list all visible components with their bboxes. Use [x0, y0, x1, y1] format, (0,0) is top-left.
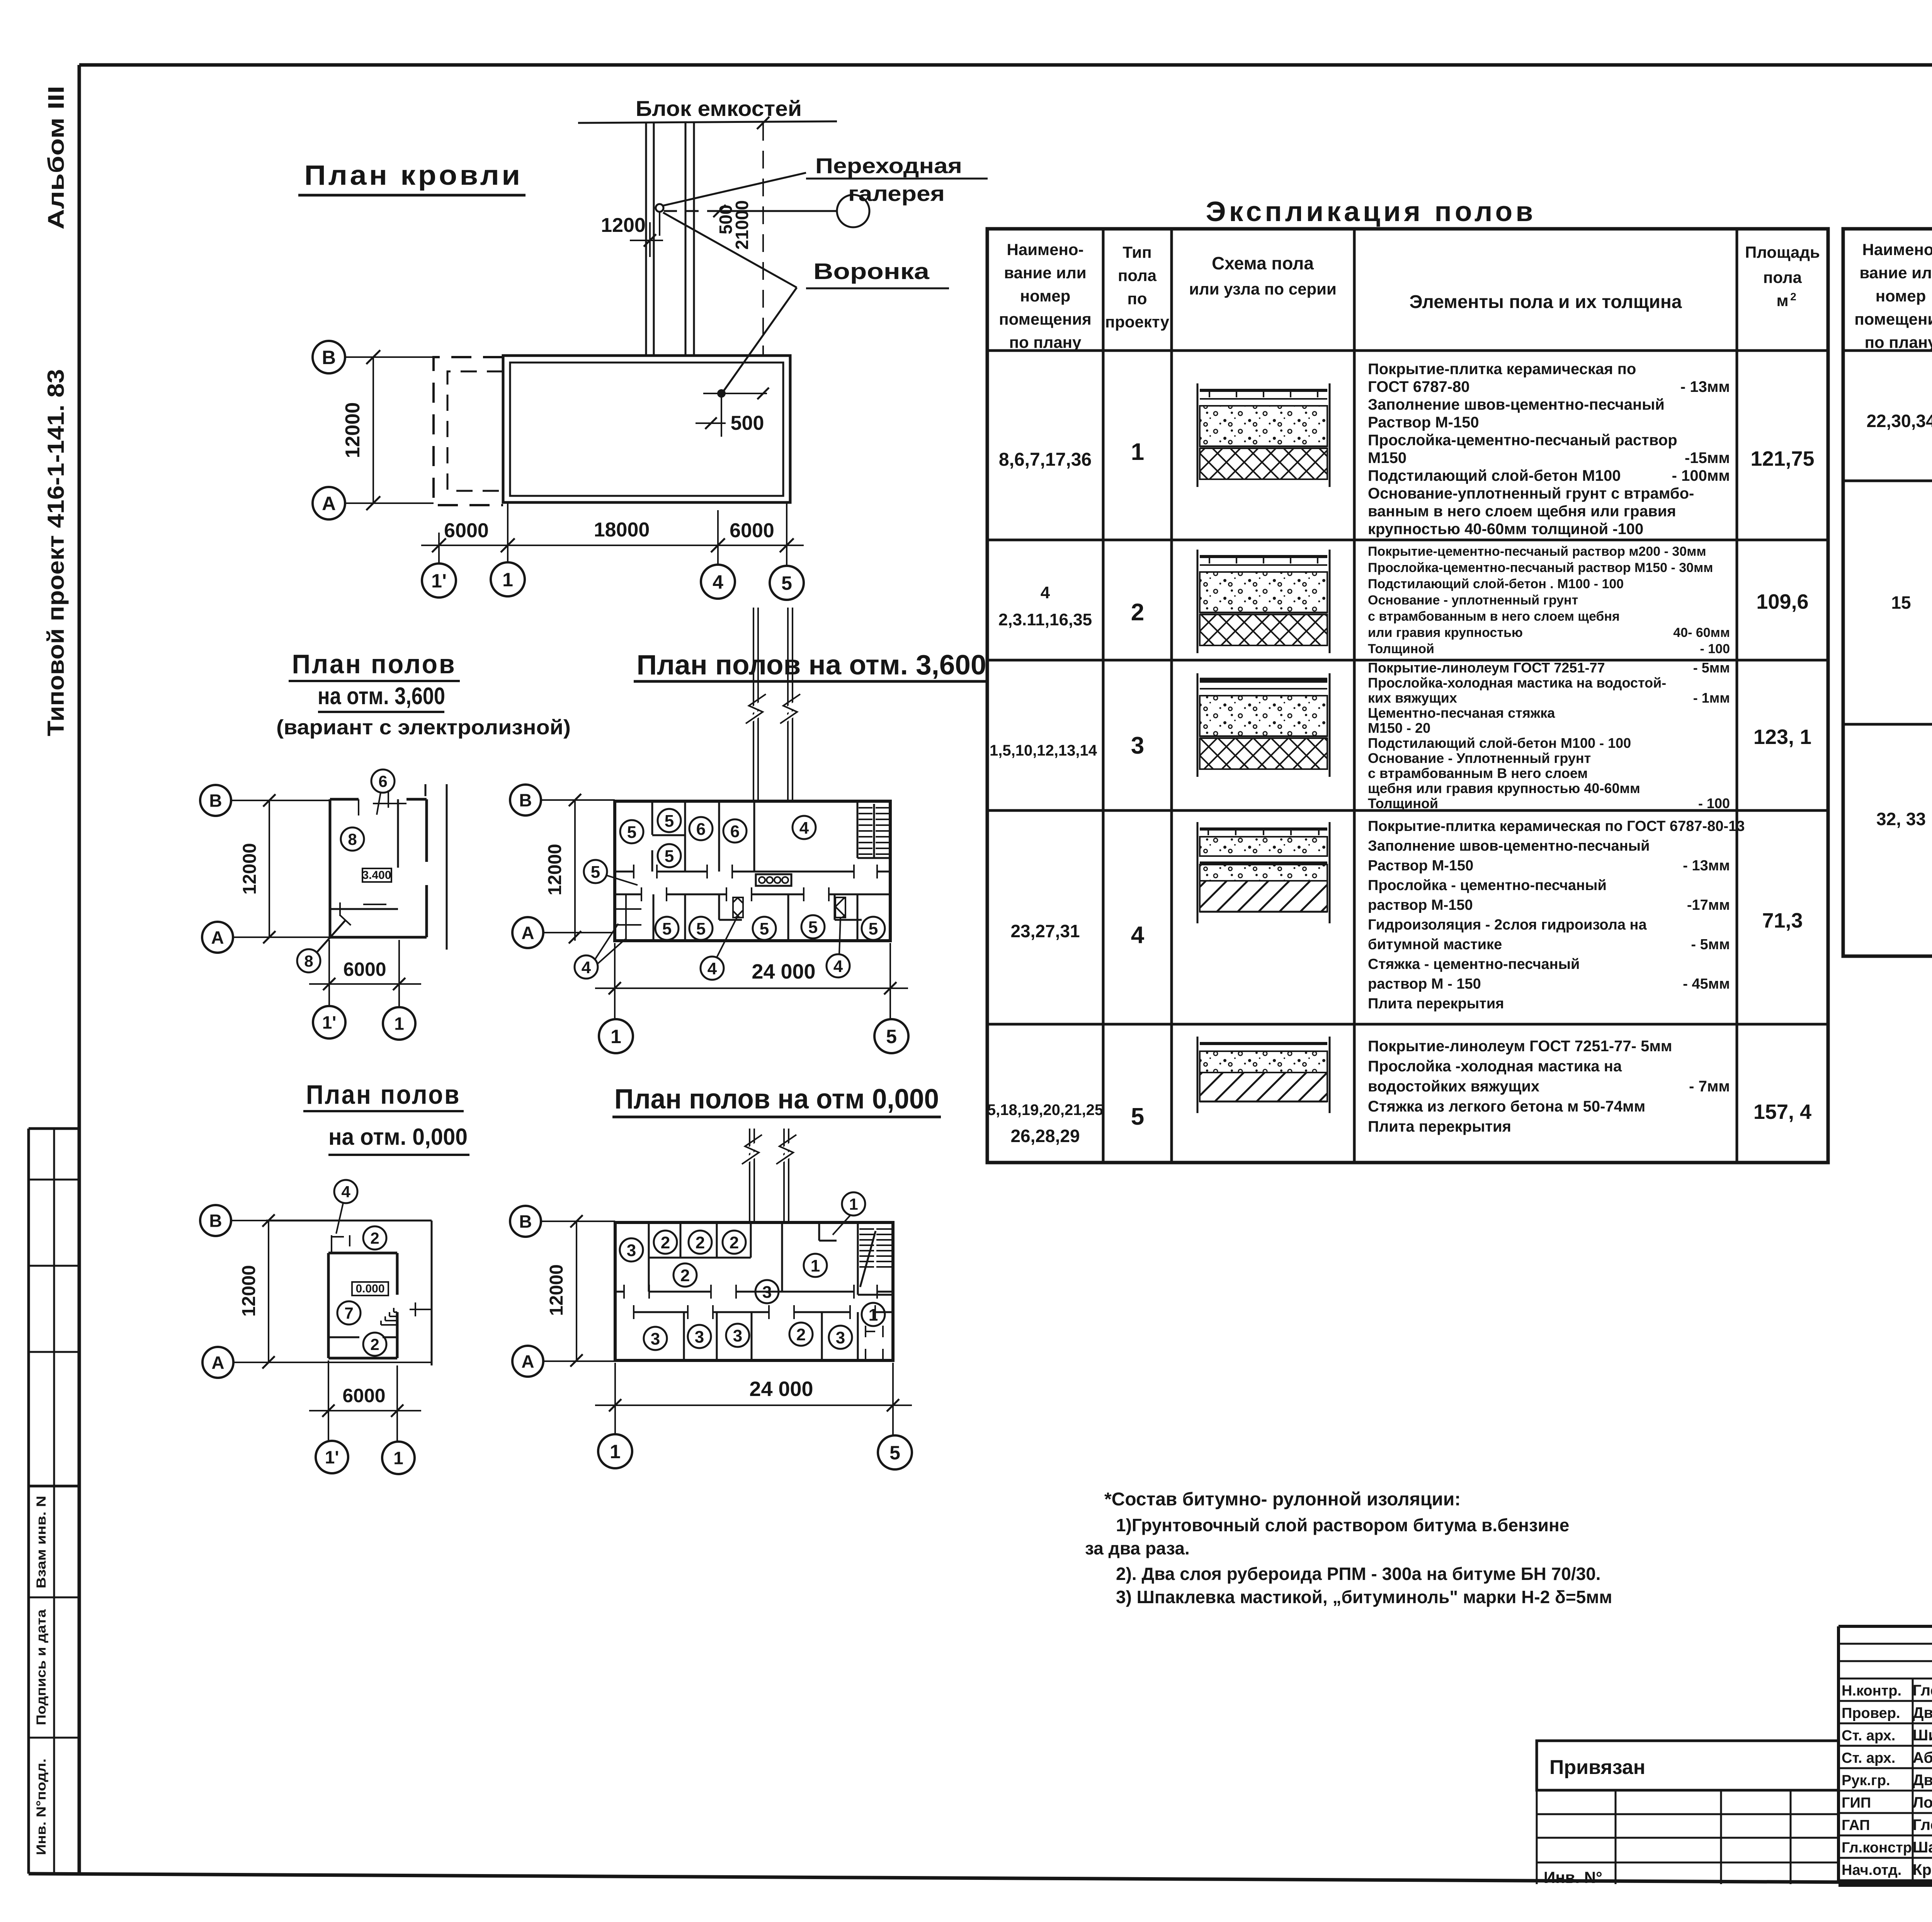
right table row 6 — [1866, 371, 1932, 464]
svg-text:- 100: - 100 — [1700, 642, 1730, 656]
svg-text:1: 1 — [869, 1306, 878, 1324]
svg-text:Стяжка из легкого бетона: Стяжка из легкого бетона м 50-74мм — [1368, 1098, 1645, 1115]
svg-text:Привязан: Привязан — [1549, 1756, 1645, 1779]
svg-text:Рук.гр.: Рук.гр. — [1842, 1772, 1890, 1789]
small plan 3.600: axis 1' — [313, 940, 345, 1038]
svg-text:Инв. N°: Инв. N° — [1544, 1868, 1602, 1886]
svg-text:Экспликация полов: Экспликация полов — [1206, 196, 1536, 227]
small plan 0.000: leader 4 — [334, 1180, 357, 1234]
small plan 3.600: room label 6 — [371, 769, 395, 815]
svg-text:- 5мм: - 5мм — [1691, 936, 1730, 953]
roof outline — [503, 356, 790, 502]
svg-text:по плану: по плану — [1865, 333, 1932, 351]
dim 500 at funnel — [696, 388, 769, 437]
svg-text:3.400: 3.400 — [362, 869, 391, 882]
svg-text:2: 2 — [661, 1233, 670, 1252]
svg-text:0.000: 0.000 — [355, 1282, 384, 1295]
small plan 0.000: axis circle B — [200, 1205, 275, 1236]
gallery label — [806, 153, 988, 206]
svg-text:раствор М - 150: раствор М - 150 — [1368, 976, 1481, 992]
big plan 0.000: axis 5 — [878, 1363, 912, 1469]
svg-text:-17мм: -17мм — [1687, 897, 1730, 913]
big plan 3.600: shaft hatches — [733, 897, 743, 918]
svg-text:3: 3 — [627, 1241, 636, 1260]
svg-text:А: А — [322, 493, 336, 514]
svg-text:вание или: вание или — [1859, 264, 1932, 282]
svg-text:8: 8 — [304, 952, 313, 970]
svg-text:Переходная: Переходная — [815, 153, 962, 178]
svg-text:Раствор М-150: Раствор М-150 — [1368, 414, 1479, 431]
svg-text:крупностью 40-60мм толщино: крупностью 40-60мм толщиной -100 — [1368, 521, 1643, 538]
svg-text:4: 4 — [713, 571, 723, 593]
svg-text:1: 1 — [849, 1195, 858, 1213]
svg-text:по: по — [1127, 289, 1147, 308]
small plan 0.000: room 7 — [337, 1301, 361, 1324]
svg-text:Взам инв. N: Взам инв. N — [34, 1496, 49, 1588]
svg-text:- 13мм: - 13мм — [1683, 858, 1730, 874]
svg-text:4: 4 — [582, 958, 591, 977]
svg-text:5,18,19,20,21,25: 5,18,19,20,21,25 — [987, 1101, 1103, 1118]
big plan 3.600: stair block — [859, 804, 889, 858]
svg-text:6: 6 — [730, 822, 740, 841]
svg-text:2: 2 — [370, 1229, 379, 1247]
small plan 0.000: outline — [266, 1221, 432, 1365]
svg-text:4: 4 — [1041, 583, 1050, 602]
svg-text:1: 1 — [811, 1256, 820, 1275]
svg-text:Схема пола: Схема пола — [1212, 253, 1314, 273]
svg-text:15: 15 — [1891, 592, 1911, 613]
right table row 7 — [1891, 491, 1932, 716]
big plan 3.600: corridor label 5 — [584, 860, 638, 885]
svg-text:Основание - уплотненный г: Основание - уплотненный грунт — [1368, 593, 1578, 608]
svg-text:Цементно-песчаная стяжка: Цементно-песчаная стяжка — [1368, 705, 1555, 721]
svg-text:2: 2 — [696, 1233, 705, 1252]
svg-text:ГАП: ГАП — [1842, 1817, 1870, 1833]
svg-text:5: 5 — [808, 918, 818, 937]
svg-text:12000: 12000 — [545, 844, 565, 895]
svg-text:щебня или гравия крупностью: щебня или гравия крупностью 40-60мм — [1368, 780, 1640, 796]
svg-text:1: 1 — [394, 1014, 404, 1034]
svg-text:с втрамбованным В него с: с втрамбованным В него слоем — [1368, 765, 1588, 781]
svg-text:109,6: 109,6 — [1756, 590, 1808, 613]
svg-text:1200: 1200 — [601, 214, 646, 237]
small plan 0.000: dim 6000 — [309, 1385, 421, 1417]
title: plan polov 0.000 (left) — [303, 1079, 469, 1155]
svg-text:2: 2 — [1131, 599, 1144, 626]
svg-text:Ст. арх.: Ст. арх. — [1842, 1750, 1895, 1766]
svg-text:или гравия крупностью: или гравия крупностью — [1368, 625, 1523, 640]
small plan 3.600: inner partition — [330, 799, 398, 916]
svg-text:Абашина: Абашина — [1913, 1749, 1932, 1766]
svg-text:5: 5 — [760, 919, 769, 938]
svg-text:24 000: 24 000 — [752, 960, 815, 983]
svg-text:- 45мм: - 45мм — [1683, 976, 1730, 992]
roof annex dashed outline — [434, 357, 503, 505]
svg-text:Раствор М-150: Раствор М-150 — [1368, 858, 1473, 874]
svg-text:4: 4 — [799, 819, 809, 838]
svg-text:Покрытие-линолеум ГОСТ 7251-7: Покрытие-линолеум ГОСТ 7251-77 — [1368, 660, 1605, 676]
privyazan box — [1537, 1741, 1838, 1790]
svg-text:Наимено-: Наимено- — [1007, 240, 1084, 259]
svg-text:1: 1 — [1131, 439, 1144, 465]
svg-text:пола: пола — [1763, 268, 1802, 286]
svg-text:26,28,29: 26,28,29 — [1010, 1126, 1080, 1146]
svg-text:Основание - Уплотненный грун: Основание - Уплотненный грунт — [1368, 750, 1591, 766]
svg-text:или узла по серии: или узла по серии — [1189, 280, 1337, 298]
svg-text:*Состав битумно- рулонной и: *Состав битумно- рулонной изоляции: — [1104, 1489, 1461, 1510]
small plan 3.600: room label 8 lower — [297, 915, 351, 972]
names table labels — [1842, 1681, 1932, 1878]
svg-text:А: А — [211, 928, 224, 948]
svg-text:Глебов: Глебов — [1913, 1682, 1932, 1699]
svg-text:4: 4 — [833, 957, 843, 976]
right table grid — [1843, 229, 1932, 956]
small plan 0.000: dim 12000 — [239, 1221, 269, 1362]
svg-text:4: 4 — [341, 1183, 350, 1201]
svg-text:- 5мм: - 5мм — [1693, 660, 1730, 676]
left table row 2 — [998, 544, 1809, 656]
svg-text:40- 60мм: 40- 60мм — [1673, 625, 1730, 640]
svg-text:6000: 6000 — [444, 519, 489, 542]
roof dim 12000 — [342, 357, 373, 503]
svg-text:6000: 6000 — [343, 958, 386, 980]
svg-text:32, 33: 32, 33 — [1876, 809, 1926, 829]
svg-text:-15мм: -15мм — [1685, 449, 1730, 466]
svg-text:А: А — [521, 1352, 534, 1372]
roof axis circle 1' — [422, 545, 456, 598]
svg-text:водостойких вяжущих: водостойких вяжущих — [1368, 1078, 1539, 1095]
svg-text:Заполнение швов-цементно-песч: Заполнение швов-цементно-песчаный — [1368, 838, 1650, 854]
svg-text:(вариант с электролизной): (вариант с электролизной) — [276, 716, 571, 739]
svg-text:6: 6 — [696, 820, 706, 839]
small plan 3.600: level mark 3.400 — [362, 868, 391, 882]
svg-text:5: 5 — [886, 1026, 897, 1047]
big plan 3.600: axis circle A — [512, 917, 615, 948]
svg-text:3: 3 — [836, 1328, 845, 1347]
svg-text:71,3: 71,3 — [1762, 909, 1803, 932]
big plan 3.600: axis 1 — [599, 943, 633, 1053]
small plan 0.000: partition — [328, 1302, 432, 1337]
roof funnel point — [717, 389, 726, 398]
svg-text:3: 3 — [733, 1326, 742, 1345]
big plan 3.600: axis 5 — [874, 943, 908, 1053]
svg-text:4: 4 — [707, 959, 717, 978]
small plan 3.600: axis 1 — [383, 940, 415, 1040]
svg-text:3: 3 — [651, 1330, 660, 1348]
left table row 1 — [999, 361, 1815, 538]
svg-text:Покрытие-линолеум ГОСТ 7251: Покрытие-линолеум ГОСТ 7251-77- 5мм — [1368, 1038, 1672, 1055]
svg-text:1,5,10,12,13,14: 1,5,10,12,13,14 — [990, 742, 1097, 759]
big plan 0.000: bottom partitions — [684, 1312, 858, 1360]
big plan 3.600: leader circles 4 — [575, 924, 625, 979]
svg-text:на отм. 3,600: на отм. 3,600 — [318, 683, 445, 710]
svg-text:157, 4: 157, 4 — [1753, 1100, 1811, 1124]
svg-text:А: А — [521, 923, 534, 943]
svg-text:12000: 12000 — [240, 843, 260, 894]
dim 1200 — [601, 214, 663, 257]
small plan 3.600: axis circle B — [200, 785, 330, 816]
svg-text:Двойнина: Двойнина — [1913, 1772, 1932, 1789]
svg-text:2). Два слоя рубероида Р: 2). Два слоя рубероида РПМ - 300а на бит… — [1116, 1564, 1601, 1584]
svg-text:Покрытие-плитка керамическая п: Покрытие-плитка керамическая по ГОСТ 678… — [1368, 818, 1745, 834]
small plan 3.600: room label 8 — [341, 827, 364, 851]
big plan 0.000: top partitions — [649, 1222, 893, 1295]
svg-text:2: 2 — [1790, 291, 1796, 303]
svg-text:м: м — [1776, 291, 1788, 310]
svg-text:ванным в него слоем щебня: ванным в него слоем щебня или гравия — [1368, 503, 1676, 520]
big plan 0.000: room labels — [620, 1231, 885, 1350]
svg-text:6: 6 — [378, 772, 387, 790]
svg-text:8,6,7,17,36: 8,6,7,17,36 — [999, 449, 1092, 470]
svg-text:Толщиной: Толщиной — [1368, 795, 1438, 811]
svg-text:23,27,31: 23,27,31 — [1010, 921, 1080, 941]
svg-text:Прослойка - цементно-песчаный: Прослойка - цементно-песчаный — [1368, 877, 1607, 894]
big plan 0.000: right door ticks — [866, 1326, 883, 1360]
svg-text:5: 5 — [696, 919, 706, 938]
svg-text:Толщиной: Толщиной — [1368, 642, 1434, 656]
big plan 0.000: axis circle B — [510, 1206, 615, 1237]
svg-text:номер: номер — [1876, 287, 1926, 305]
svg-text:5: 5 — [1131, 1103, 1144, 1130]
gallery node circle — [664, 195, 869, 227]
svg-text:22,30,34: 22,30,34 — [1866, 411, 1932, 431]
svg-text:Элементы пола и их толщина: Элементы пола и их толщина — [1409, 292, 1682, 312]
svg-text:12000: 12000 — [239, 1265, 259, 1316]
svg-text:5: 5 — [781, 572, 792, 594]
big plan 3.600: dim 12000 — [545, 800, 575, 941]
tank block cut line — [578, 121, 837, 123]
svg-text:помещения: помещения — [999, 310, 1091, 328]
big plan 0.000: corridor walls — [615, 1285, 893, 1319]
small plan 3.600: outline — [330, 784, 447, 950]
svg-text:6000: 6000 — [730, 519, 774, 542]
svg-text:- 100: - 100 — [1698, 795, 1730, 811]
svg-text:вание или: вание или — [1004, 264, 1086, 282]
small plan 3.600: axis circle A — [202, 922, 330, 953]
roof axis circle 1 — [491, 545, 525, 596]
svg-text:7: 7 — [344, 1304, 353, 1322]
svg-text:Гидроизоляция - 2слоя гидроиз: Гидроизоляция - 2слоя гидроизола на — [1368, 917, 1647, 933]
svg-text:4: 4 — [1131, 922, 1145, 948]
svg-text:1': 1' — [325, 1447, 339, 1467]
svg-text:Наимено-: Наимено- — [1862, 240, 1932, 259]
big plan 0.000: dim 12000 — [546, 1221, 577, 1360]
svg-text:номер: номер — [1020, 287, 1071, 305]
svg-text:Заполнение швов-цементно-песч: Заполнение швов-цементно-песчаный — [1368, 396, 1665, 413]
svg-text:Шапиро: Шапиро — [1913, 1839, 1932, 1856]
funnel leaders — [663, 213, 797, 288]
svg-text:1)Грунтовочный слой раствор: 1)Грунтовочный слой раствором битума в.б… — [1116, 1515, 1569, 1535]
svg-text:Гл.констр: Гл.констр — [1842, 1840, 1912, 1856]
big plan 0.000: dim 24000 — [595, 1377, 912, 1411]
svg-text:121,75: 121,75 — [1750, 447, 1814, 470]
svg-text:Стяжка - цементно-песчаный: Стяжка - цементно-песчаный — [1368, 956, 1580, 972]
svg-text:ГИП: ГИП — [1842, 1795, 1871, 1811]
svg-text:5: 5 — [662, 919, 672, 938]
svg-text:А: А — [211, 1353, 224, 1373]
svg-text:Н.контр.: Н.контр. — [1842, 1683, 1901, 1699]
svg-text:12000: 12000 — [546, 1264, 567, 1316]
small plan 0.000: room 2 bottom — [363, 1333, 386, 1356]
svg-text:по плану: по плану — [1009, 333, 1082, 351]
big plan 3.600: outline — [615, 801, 890, 941]
svg-text:галерея: галерея — [848, 181, 945, 206]
svg-text:Подпись и дата: Подпись и дата — [34, 1609, 49, 1725]
svg-text:План полов на отм. 3,600: План полов на отм. 3,600 — [637, 650, 986, 681]
svg-text:М150: М150 — [1368, 449, 1406, 466]
svg-text:с втрамбованным в него слое: с втрамбованным в него слоем щебня — [1368, 609, 1620, 624]
small plan 0.000: room 2 top — [363, 1226, 386, 1250]
left table row 4 — [1010, 818, 1803, 1012]
svg-text:3) Шпаклевка мастикой, „би: 3) Шпаклевка мастикой, „битуминоль" марк… — [1116, 1587, 1612, 1607]
gallery funnel node — [656, 204, 663, 236]
svg-text:Прослойка -холодная мастика: Прослойка -холодная мастика на — [1368, 1058, 1622, 1075]
svg-text:- 100мм: - 100мм — [1672, 467, 1730, 484]
funnel label — [806, 259, 949, 288]
svg-text:- 7мм: - 7мм — [1689, 1078, 1730, 1095]
big plan 3.600: room labels bottom — [655, 915, 885, 940]
svg-text:Прослойка-холодная мастика н: Прослойка-холодная мастика на водостой- — [1368, 675, 1666, 691]
title: plan polov otm 3.600 variant — [276, 649, 571, 739]
svg-text:Подстилающий слой-бетон . М1: Подстилающий слой-бетон . М100 - 100 — [1368, 577, 1624, 591]
svg-text:Тип: Тип — [1122, 243, 1151, 261]
svg-text:12000: 12000 — [342, 402, 364, 458]
svg-text:2,3.11,16,35: 2,3.11,16,35 — [998, 610, 1092, 629]
svg-text:Инв. N°подл.: Инв. N°подл. — [34, 1759, 49, 1855]
svg-text:123, 1: 123, 1 — [1753, 725, 1811, 749]
right table row 8 — [1876, 739, 1932, 937]
gallery wall lines above plan 0.000 — [742, 1129, 796, 1222]
svg-text:пола: пола — [1118, 266, 1157, 284]
big plan 0.000: leader 1 top — [819, 1192, 865, 1241]
svg-text:проекту: проекту — [1105, 313, 1170, 331]
svg-text:Основание-уплотненный грунт с: Основание-уплотненный грунт с втрамбо- — [1368, 485, 1694, 502]
names table — [1838, 1626, 1932, 1886]
svg-text:2: 2 — [680, 1266, 690, 1285]
svg-text:5: 5 — [591, 863, 600, 882]
svg-text:Красавин: Красавин — [1913, 1861, 1932, 1878]
svg-text:В: В — [209, 1211, 222, 1231]
svg-text:В: В — [322, 347, 336, 368]
left table grid — [987, 229, 1828, 1163]
svg-text:План полов на отм 0,000: План полов на отм 0,000 — [614, 1084, 939, 1115]
svg-text:ГОСТ 6787-80: ГОСТ 6787-80 — [1368, 378, 1470, 395]
svg-text:21000: 21000 — [732, 200, 752, 250]
svg-text:1': 1' — [431, 570, 447, 592]
small plan 0.000: axis 1' — [316, 1360, 348, 1473]
svg-text:18000: 18000 — [594, 519, 650, 541]
big plan 3.600: top partitions — [652, 801, 890, 872]
svg-text:Блок емкостей: Блок емкостей — [636, 96, 802, 121]
svg-text:2: 2 — [796, 1325, 806, 1344]
svg-text:Шилова: Шилова — [1913, 1727, 1932, 1744]
svg-text:Нач.отд.: Нач.отд. — [1842, 1862, 1901, 1878]
svg-text:В: В — [519, 790, 532, 810]
big plan 3.600: corridor walls — [615, 865, 890, 901]
svg-text:5: 5 — [889, 1442, 900, 1464]
svg-text:5: 5 — [627, 823, 636, 842]
notes: bitumen isolation composition — [1085, 1489, 1612, 1607]
svg-text:Типовой проект 416-1-141. 83: Типовой проект 416-1-141. 83 — [43, 369, 69, 736]
svg-text:Воронка: Воронка — [813, 259, 930, 284]
svg-text:битумной мастике: битумной мастике — [1368, 936, 1502, 953]
small plan 0.000: door top — [332, 1235, 350, 1253]
big plan 3.600: axis circle B — [510, 785, 615, 815]
svg-text:8: 8 — [348, 830, 357, 848]
leader to gallery label — [663, 173, 806, 206]
svg-text:500: 500 — [731, 412, 764, 434]
big plan 0.000: stair block — [859, 1229, 891, 1287]
title: plan polov na otm 3.600 — [634, 650, 988, 681]
small plan 3.600: dim 6000 — [309, 958, 421, 990]
svg-text:1: 1 — [502, 569, 513, 591]
svg-text:М150 - 20: М150 - 20 — [1368, 720, 1430, 736]
svg-text:Прослойка-цементно-песчаный р: Прослойка-цементно-песчаный раствор — [1368, 432, 1677, 449]
svg-text:1: 1 — [611, 1026, 621, 1047]
svg-text:Прослойка-цементно-песчаный ра: Прослойка-цементно-песчаный раствор М150… — [1368, 560, 1713, 575]
big plan 0.000: axis circle A — [512, 1346, 615, 1377]
small plan 0.000: axis 1 — [382, 1365, 415, 1474]
svg-text:1': 1' — [322, 1013, 337, 1033]
roof axis circle A — [313, 487, 434, 519]
svg-text:- 1мм: - 1мм — [1693, 690, 1730, 706]
roof axis circle 4 — [701, 545, 735, 599]
roof plan title — [298, 160, 526, 195]
svg-text:План полов: План полов — [306, 1079, 461, 1110]
gallery wall lines (roof) — [646, 123, 694, 356]
svg-text:6000: 6000 — [342, 1385, 385, 1406]
svg-text:2: 2 — [370, 1335, 379, 1353]
svg-text:5: 5 — [869, 919, 878, 938]
svg-text:за два раза.: за два раза. — [1085, 1538, 1190, 1558]
svg-text:на отм. 0,000: на отм. 0,000 — [328, 1124, 468, 1150]
svg-text:1: 1 — [393, 1448, 403, 1468]
roof axis circle 5 — [770, 545, 804, 600]
svg-text:Покрытие-плитка керамическая п: Покрытие-плитка керамическая по — [1368, 361, 1636, 378]
title block small grid — [1537, 1790, 1838, 1886]
svg-text:Подстилающий слой-бетон М100: Подстилающий слой-бетон М100 — [1368, 467, 1621, 484]
svg-text:Альбом III: Альбом III — [44, 86, 69, 230]
svg-text:В: В — [519, 1212, 532, 1232]
big plan 3.600: room labels top — [620, 809, 816, 867]
svg-text:помещения: помещения — [1854, 310, 1932, 328]
big plan 3.600: bottom partitions — [653, 894, 862, 941]
small plan 3.600: door opening top — [359, 790, 406, 815]
svg-text:Площадь: Площадь — [1745, 243, 1820, 261]
big plan 0.000: axis 1 — [598, 1363, 632, 1468]
roof axis circle B — [313, 341, 434, 373]
gallery wall lines above plan 3600 — [746, 608, 800, 801]
svg-text:24 000: 24 000 — [749, 1377, 813, 1401]
title: plan polov na otm 0.000 (right) — [612, 1084, 941, 1117]
svg-text:Ст. арх.: Ст. арх. — [1842, 1728, 1895, 1744]
title block right part grid — [1838, 1666, 1932, 1886]
svg-text:1: 1 — [610, 1441, 621, 1462]
svg-text:5: 5 — [665, 812, 674, 831]
svg-text:Плита перекрытия: Плита перекрытия — [1368, 996, 1504, 1012]
svg-text:3: 3 — [762, 1283, 772, 1302]
svg-text:ких вяжущих: ких вяжущих — [1368, 690, 1457, 706]
svg-text:Лоуцкер: Лоуцкер — [1913, 1794, 1932, 1811]
left table row 5 — [987, 1037, 1811, 1146]
svg-text:Глебов: Глебов — [1913, 1816, 1932, 1833]
svg-text:раствор М-150: раствор М-150 — [1368, 897, 1473, 913]
svg-text:В: В — [209, 791, 222, 811]
svg-text:План полов: План полов — [292, 649, 456, 679]
big plan 3.600: left cells — [615, 894, 641, 941]
svg-text:Подстилающий слой-бетон М10: Подстилающий слой-бетон М100 - 100 — [1368, 735, 1631, 751]
roof bottom dim line — [421, 502, 804, 563]
